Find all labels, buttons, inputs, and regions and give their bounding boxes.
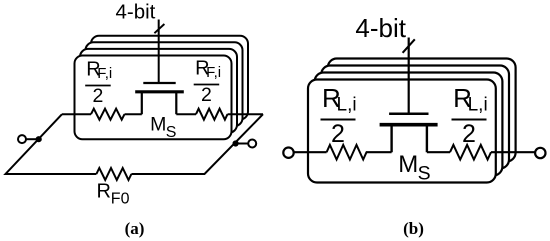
svg-text:L,i: L,i [337,95,357,116]
svg-text:M: M [398,151,418,178]
svg-text:2: 2 [201,84,212,106]
svg-text:S: S [166,124,177,141]
svg-text:(b): (b) [403,219,424,238]
svg-text:M: M [150,113,166,135]
svg-text:F0: F0 [111,190,130,207]
svg-text:2: 2 [92,85,103,107]
svg-text:R: R [97,181,111,203]
svg-text:L,i: L,i [468,95,488,116]
svg-text:2: 2 [331,120,345,148]
svg-text:4-bit: 4-bit [355,13,406,43]
svg-text:(a): (a) [125,219,145,238]
svg-text:F,i: F,i [97,65,112,82]
svg-text:2: 2 [462,120,476,148]
svg-text:F,i: F,i [206,64,221,81]
svg-text:4-bit: 4-bit [116,1,156,24]
svg-text:S: S [418,163,431,185]
